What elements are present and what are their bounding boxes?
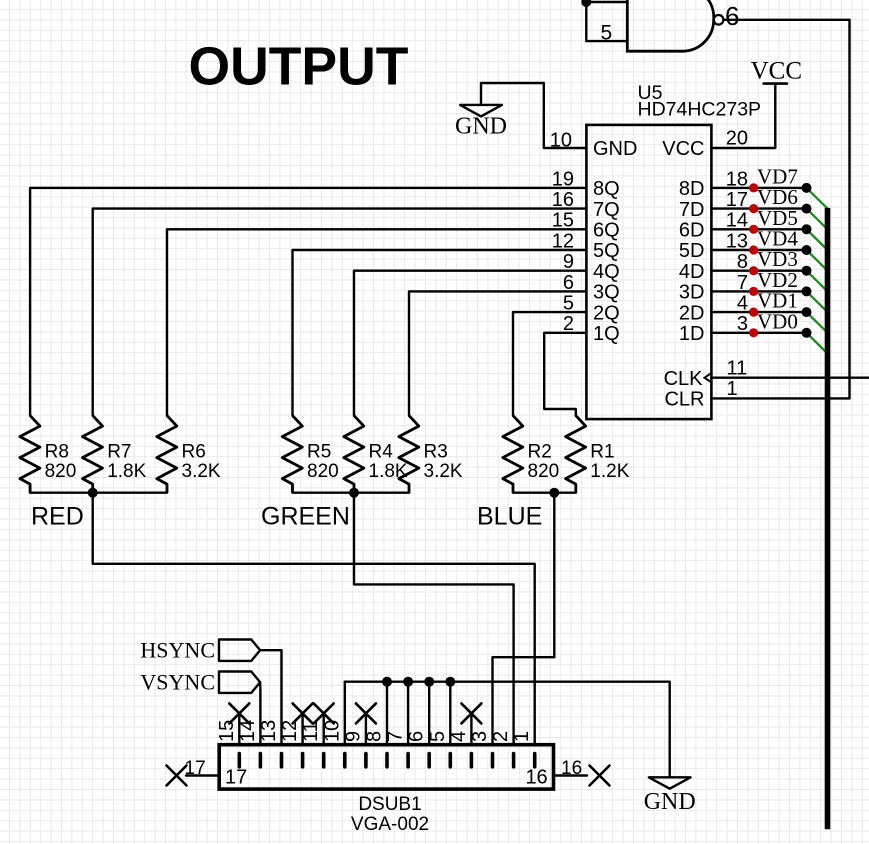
resistor R6 3.2K <box>157 416 221 493</box>
svg-text:VCC: VCC <box>662 138 704 160</box>
resistor R8 820 <box>20 416 76 493</box>
bus entry VD3 <box>807 271 828 292</box>
svg-text:7D: 7D <box>679 199 705 221</box>
svg-text:3Q: 3Q <box>593 282 620 304</box>
svg-text:1Q: 1Q <box>593 323 620 345</box>
svg-text:16: 16 <box>561 758 582 779</box>
svg-text:6: 6 <box>406 731 428 742</box>
no-connect X pin 11 <box>314 703 334 723</box>
pin 4 2D net VD1 <box>679 289 812 325</box>
svg-text:3: 3 <box>469 731 491 742</box>
no-connect X pin 12 <box>293 703 313 723</box>
svg-text:5D: 5D <box>679 240 705 262</box>
svg-text:3.2K: 3.2K <box>424 461 463 482</box>
junction - ground at pin 8 <box>382 677 392 687</box>
bus entry VD0 <box>807 333 828 354</box>
resistor R4 1.8K <box>344 416 408 493</box>
svg-text:GND: GND <box>455 114 507 140</box>
pin 18 8D net VD7 <box>679 164 812 200</box>
svg-text:820: 820 <box>528 461 560 482</box>
ground symbol GND (top) <box>460 105 502 117</box>
resistor R2 820 <box>503 416 559 493</box>
svg-text:CLR: CLR <box>664 389 704 411</box>
junction - gate inputs tied <box>581 0 591 7</box>
resistor R1 1.2K <box>566 416 630 493</box>
svg-text:6: 6 <box>725 1 739 31</box>
bus entry VD4 <box>807 250 828 271</box>
svg-text:2: 2 <box>563 313 574 335</box>
wire - BLUE to DSUB pin 3 <box>493 493 555 745</box>
junction - ground at pin 7 <box>403 677 413 687</box>
svg-text:3.2K: 3.2K <box>182 461 221 482</box>
wire - ground to pin 6 <box>428 682 430 745</box>
svg-text:R8: R8 <box>45 441 69 462</box>
svg-text:1D: 1D <box>679 323 705 345</box>
pin 16 stub with no-connect <box>554 774 588 776</box>
pin 3 1D net VD0 <box>679 309 812 345</box>
svg-text:CLK: CLK <box>664 368 704 390</box>
svg-text:4: 4 <box>737 293 748 315</box>
wire - down right side to CLR <box>848 20 850 399</box>
svg-text:18: 18 <box>726 168 748 190</box>
svg-text:10: 10 <box>321 720 343 742</box>
data bus VD0-VD7 <box>825 208 831 829</box>
svg-text:13: 13 <box>726 230 748 252</box>
pin 12 5Q with wire to resistor <box>293 230 620 415</box>
DSUB pin pads (inside) <box>239 754 534 767</box>
svg-text:6: 6 <box>563 272 574 294</box>
wire - RED to DSUB pin 1 <box>93 493 535 745</box>
pin 15 stub (NC) <box>238 713 240 744</box>
svg-text:9: 9 <box>563 251 574 273</box>
resistor R5 820 <box>282 416 338 493</box>
pin 9 stub (NC) <box>365 713 367 744</box>
IC U5 HD74HC273P body <box>586 125 711 419</box>
svg-text:HSYNC: HSYNC <box>140 637 215 662</box>
svg-text:11: 11 <box>300 721 322 742</box>
svg-text:19: 19 <box>552 168 574 190</box>
wire - ground to pin 5 <box>449 682 451 745</box>
svg-text:820: 820 <box>307 461 339 482</box>
svg-text:16: 16 <box>552 189 574 211</box>
wire - ground to pin 7 <box>407 682 409 745</box>
svg-text:7Q: 7Q <box>593 199 620 221</box>
svg-text:5Q: 5Q <box>593 240 620 262</box>
svg-text:4: 4 <box>448 731 470 742</box>
svg-text:12: 12 <box>552 230 574 252</box>
nand gate (partial, wired as inverter) <box>627 0 713 51</box>
pin 4 stub (NC) <box>470 713 472 744</box>
svg-text:14: 14 <box>726 210 748 232</box>
wire - DSUB ground bus <box>344 682 346 745</box>
DSUB pin numbers 1-15 <box>216 720 533 742</box>
pin 15 6Q with wire to resistor <box>167 210 620 416</box>
svg-text:R3: R3 <box>424 441 448 462</box>
bus entry VD6 <box>807 209 828 230</box>
pin 5 2Q with wire to resistor <box>513 293 620 416</box>
pin 19 8Q with wire to resistor <box>30 168 620 415</box>
wire - pin 10 GND to ground symbol <box>481 83 586 148</box>
wire - HSYNC to DSUB pin 13 <box>260 650 281 745</box>
svg-text:2D: 2D <box>679 302 705 324</box>
svg-text:14: 14 <box>237 720 259 742</box>
pin 2 1Q with wire to resistor <box>544 313 619 415</box>
pin 6 3Q with wire to resistor <box>409 272 620 416</box>
svg-text:VCC: VCC <box>751 58 802 85</box>
svg-text:15: 15 <box>552 210 574 232</box>
svg-text:R4: R4 <box>369 441 394 462</box>
svg-text:GREEN: GREEN <box>261 503 350 531</box>
svg-text:HD74HC273P: HD74HC273P <box>638 98 762 120</box>
wire - GREEN net join <box>293 492 410 494</box>
svg-text:10: 10 <box>550 129 572 151</box>
svg-text:3: 3 <box>737 313 748 335</box>
svg-text:8: 8 <box>737 251 748 273</box>
svg-text:3D: 3D <box>679 282 705 304</box>
svg-text:16: 16 <box>525 766 547 788</box>
svg-text:20: 20 <box>726 127 748 149</box>
pin 17 7D net VD6 <box>679 185 812 221</box>
svg-text:2: 2 <box>490 731 512 742</box>
svg-text:DSUB1: DSUB1 <box>358 794 421 815</box>
pin 17 stub with no-connect <box>186 774 219 776</box>
connector DSUB1 body <box>219 745 553 789</box>
pin 12 stub (NC) <box>301 713 303 744</box>
svg-text:5: 5 <box>563 293 574 315</box>
svg-text:4Q: 4Q <box>593 261 620 283</box>
junction - RED <box>88 488 98 498</box>
svg-text:7: 7 <box>385 731 407 742</box>
wire - ground to pin 8 <box>386 682 388 745</box>
svg-text:5: 5 <box>601 21 613 44</box>
svg-text:11: 11 <box>727 358 748 380</box>
svg-text:1.2K: 1.2K <box>590 461 629 482</box>
wire - gate lower input <box>586 2 627 41</box>
junction - ground at pin 5 <box>445 677 455 687</box>
svg-text:17: 17 <box>726 189 748 211</box>
wire - gate output to right <box>723 19 849 21</box>
bus entry VD1 <box>807 312 828 333</box>
junction - GREEN <box>349 488 359 498</box>
svg-text:R2: R2 <box>528 441 552 462</box>
pin 7 3D net VD2 <box>679 268 812 304</box>
svg-text:13: 13 <box>258 720 280 742</box>
bus entry VD2 <box>807 291 828 312</box>
pin 1 CLR <box>664 378 849 410</box>
no-connect X pin 9 <box>356 703 376 723</box>
signal flag HSYNC <box>219 640 260 661</box>
svg-text:GND: GND <box>644 789 696 815</box>
svg-text:17: 17 <box>225 766 247 788</box>
pin 8 4D net VD3 <box>679 247 812 283</box>
no-connect X pin 15 <box>229 703 249 723</box>
svg-text:9: 9 <box>342 731 364 742</box>
svg-text:BLUE: BLUE <box>477 503 542 531</box>
wire - VSYNC to DSUB pin 14 <box>259 682 262 745</box>
svg-text:GND: GND <box>593 138 637 160</box>
svg-text:5: 5 <box>427 731 449 742</box>
svg-text:RED: RED <box>31 503 84 531</box>
svg-text:6Q: 6Q <box>593 220 620 242</box>
pin 16 7Q with wire to resistor <box>93 189 620 416</box>
svg-text:6D: 6D <box>679 220 705 242</box>
svg-text:VSYNC: VSYNC <box>140 670 215 695</box>
svg-text:VD0: VD0 <box>757 309 798 333</box>
bus entry VD7 <box>807 188 828 209</box>
resistor R3 3.2K <box>399 416 463 493</box>
svg-text:1: 1 <box>727 378 738 400</box>
no-connect X pin 4 <box>461 703 481 723</box>
svg-text:8D: 8D <box>679 178 705 200</box>
svg-text:8: 8 <box>364 731 386 742</box>
svg-text:R7: R7 <box>107 441 131 462</box>
svg-text:1.8K: 1.8K <box>107 461 146 482</box>
pin 11 CLK with clock mark <box>664 358 869 390</box>
svg-text:17: 17 <box>185 758 206 779</box>
ground symbol GND (bottom) <box>649 777 691 788</box>
wire - gate upper input <box>586 1 627 3</box>
pin 11 stub (NC) <box>323 713 325 744</box>
svg-text:820: 820 <box>45 461 77 482</box>
svg-text:R5: R5 <box>307 441 331 462</box>
pin 9 4Q with wire to resistor <box>354 251 620 416</box>
wire - BLUE net join <box>513 492 576 494</box>
svg-text:R1: R1 <box>590 441 614 462</box>
wire - pin 20 to VCC symbol <box>711 84 775 148</box>
wire - RED net join <box>30 492 167 494</box>
svg-text:R6: R6 <box>182 441 206 462</box>
pin 13 5D net VD4 <box>679 227 812 263</box>
pin 14 6D net VD5 <box>679 206 812 242</box>
svg-text:OUTPUT: OUTPUT <box>189 38 409 97</box>
svg-text:VGA-002: VGA-002 <box>351 814 429 835</box>
svg-text:12: 12 <box>279 720 301 742</box>
svg-text:1: 1 <box>511 731 533 742</box>
svg-text:7: 7 <box>737 272 748 294</box>
svg-text:4D: 4D <box>679 261 705 283</box>
power symbol VCC bar <box>764 82 787 85</box>
wire - GREEN to DSUB pin 2 <box>354 493 514 745</box>
resistor R7 1.8K <box>83 416 147 493</box>
svg-text:2Q: 2Q <box>593 302 620 324</box>
signal flag VSYNC <box>219 672 260 693</box>
bus entry VD5 <box>807 229 828 250</box>
svg-text:15: 15 <box>216 720 238 742</box>
junction - ground at pin 6 <box>424 677 434 687</box>
svg-text:8Q: 8Q <box>593 178 620 200</box>
junction - BLUE <box>549 488 559 498</box>
